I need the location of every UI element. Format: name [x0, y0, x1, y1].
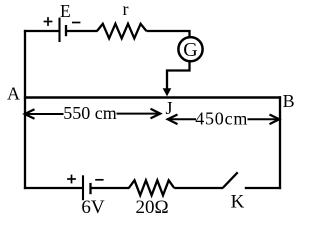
label r	[123, 0, 129, 19]
wire: key K to right rail	[245, 187, 281, 189]
battery E negative plate	[65, 25, 67, 36]
battery 6V negative plate	[89, 183, 91, 194]
wire: left rail (A vertical)	[24, 30, 26, 189]
wire: right rail (B vertical)	[279, 96, 281, 189]
node label J	[165, 98, 172, 118]
wire: resistor r to galvanometer	[146, 31, 189, 37]
battery E plus sign	[44, 17, 53, 26]
label G	[183, 39, 197, 61]
label K	[231, 192, 245, 213]
label 20 ohm	[135, 197, 168, 218]
label 6V	[81, 197, 105, 218]
svg-text:6V: 6V	[81, 197, 105, 217]
svg-text:550 cm: 550 cm	[63, 103, 117, 123]
label 450 cm	[195, 108, 248, 128]
svg-text:K: K	[231, 192, 245, 213]
dimension arrow 550 cm right head	[151, 109, 161, 119]
battery 6V minus sign	[95, 179, 103, 181]
wire: battery E to resistor r	[67, 30, 98, 32]
potentiometer wire AB	[24, 96, 281, 98]
svg-text:E: E	[60, 1, 71, 21]
label E	[60, 1, 71, 21]
svg-text:A: A	[7, 84, 20, 104]
resistor 20ohm	[129, 180, 174, 195]
svg-text:G: G	[183, 39, 197, 61]
svg-text:20Ω: 20Ω	[135, 197, 168, 217]
dimension 550 cm right shaft	[117, 113, 161, 115]
wire: galvanometer to jockey	[167, 62, 190, 91]
label 550 cm	[63, 103, 117, 123]
dimension arrow 450 cm right head	[270, 115, 280, 125]
galvanometer G	[178, 37, 202, 61]
node label B	[283, 91, 295, 111]
node label A	[7, 84, 20, 104]
svg-text:B: B	[283, 91, 295, 111]
resistor r	[97, 24, 146, 39]
battery 6V positive plate	[82, 175, 84, 200]
dimension 450 cm right shaft	[248, 118, 280, 120]
wire: top-left horizontal to battery E	[24, 30, 59, 32]
dimension arrow 450 cm left head	[168, 115, 178, 125]
svg-text:J: J	[165, 98, 172, 118]
battery E minus sign	[72, 22, 80, 24]
key K lever	[223, 172, 238, 188]
wire: bottom left horizontal to battery 6V	[24, 187, 82, 189]
wire: resistor 20ohm to key K	[174, 187, 223, 189]
dimension arrow 550 cm left head	[25, 109, 35, 119]
wire: battery 6V to resistor 20ohm	[92, 187, 130, 189]
battery E positive plate	[58, 18, 60, 42]
jockey arrow at J	[163, 88, 172, 96]
dimension 550 cm left shaft	[25, 113, 64, 115]
svg-text:450cm: 450cm	[195, 108, 248, 128]
svg-text:r: r	[123, 0, 129, 19]
battery 6V plus sign	[67, 175, 76, 184]
dimension 450 cm left shaft	[168, 118, 196, 120]
